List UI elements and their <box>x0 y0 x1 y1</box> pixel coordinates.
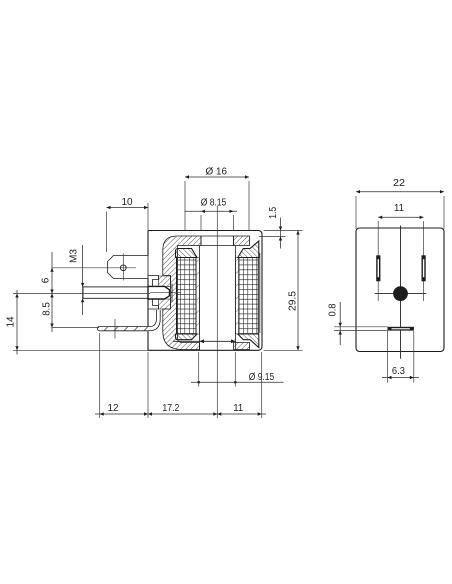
bobbin tube wall left <box>196 258 200 335</box>
bobbin flange top-right corner piece <box>238 241 259 258</box>
center hole (filled) <box>393 286 408 301</box>
dim dia 8.15 <box>185 198 238 231</box>
terminal slot right <box>422 255 426 281</box>
slot ext line left <box>377 221 379 301</box>
svg-text:6: 6 <box>41 277 52 283</box>
bracket hatch ticks <box>104 327 148 331</box>
bobbin flange bottom-left <box>176 334 198 340</box>
svg-text:Ø 16: Ø 16 <box>206 166 228 177</box>
dim 22 <box>356 178 444 229</box>
yoke C-section (hatched) <box>163 236 201 350</box>
bottom bracket slot <box>388 327 414 331</box>
yoke bottom-right block <box>234 343 250 350</box>
bracket hole centerline <box>114 319 116 339</box>
svg-text:11: 11 <box>394 203 404 214</box>
coil body outline <box>148 231 262 351</box>
upper spade terminal <box>108 256 149 279</box>
pin tip washer <box>171 284 173 303</box>
connector block hatch lower <box>159 299 171 309</box>
dim 11 right view <box>378 203 423 219</box>
terminal slot left <box>376 255 380 281</box>
svg-text:17.2: 17.2 <box>162 403 179 414</box>
dim 0.8 <box>328 302 388 345</box>
slot ext line right <box>423 221 425 301</box>
bobbin tube wall right <box>236 258 240 335</box>
svg-text:11: 11 <box>233 403 243 414</box>
svg-text:M3: M3 <box>69 249 80 263</box>
dim 1.5 <box>259 206 286 248</box>
M3 screw head inside body <box>148 286 170 299</box>
dim dia 9.15 <box>191 352 284 387</box>
mounting bracket <box>98 310 161 331</box>
dim 10 <box>107 197 149 252</box>
connector block hatch upper <box>159 276 171 286</box>
svg-text:Ø 8.15: Ø 8.15 <box>201 198 227 209</box>
winding left (cross-hatch) <box>177 258 197 335</box>
top plate lines across bore hole <box>201 235 234 237</box>
connector block steps lower <box>148 299 159 309</box>
svg-text:6.3: 6.3 <box>392 366 405 377</box>
svg-text:10: 10 <box>122 197 133 208</box>
dim M3 <box>69 245 85 315</box>
dim 29.5 <box>264 231 303 351</box>
end view outline <box>356 228 444 352</box>
terminal hole vertical centerline <box>122 254 124 281</box>
svg-text:22: 22 <box>393 178 405 189</box>
dim 6 and 8.5 <box>41 252 100 332</box>
svg-text:8.5: 8.5 <box>41 302 52 316</box>
pin mid line <box>150 292 181 294</box>
yoke top-right block <box>234 236 250 246</box>
terminal hole circle <box>120 265 126 271</box>
dim 6.3 <box>382 331 419 383</box>
dims 12 / 17.2 / 11 bottom <box>95 333 266 418</box>
dim dia 16 <box>185 166 249 231</box>
coil vertical centerline <box>216 206 218 418</box>
winding right (cross-hatch) <box>239 258 258 335</box>
bobbin flange bottom-right corner piece <box>238 334 259 348</box>
bottom washer edge with arrows (inner bore width) <box>173 340 236 342</box>
crosshair horizontal <box>375 293 427 295</box>
terminal centerline <box>52 267 136 269</box>
bobbin flange top-left <box>176 249 198 258</box>
bore wall lines <box>199 246 201 351</box>
M3 screw pin <box>83 287 148 298</box>
svg-text:12: 12 <box>108 403 119 414</box>
end view vertical centerline <box>400 226 402 359</box>
dim 14 <box>6 290 151 355</box>
connector block steps upper <box>148 276 159 287</box>
svg-text:0.8: 0.8 <box>328 303 339 316</box>
shell right wall line <box>259 253 261 333</box>
svg-text:29.5: 29.5 <box>288 291 299 311</box>
svg-text:14: 14 <box>6 316 17 327</box>
svg-text:1.5: 1.5 <box>268 206 279 218</box>
